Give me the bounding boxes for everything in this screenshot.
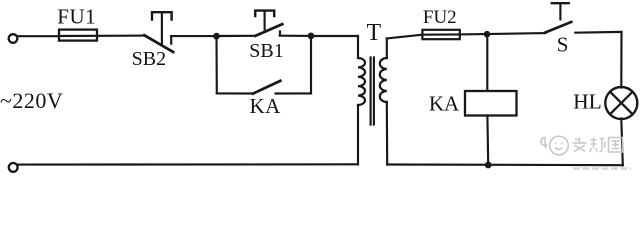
svg-text:SB2: SB2: [132, 48, 166, 70]
lamp HL circle: [605, 87, 637, 119]
wire: [460, 33, 546, 34]
wire KA coil bottom vertical: [486, 116, 489, 166]
svg-text:FU1: FU1: [57, 4, 96, 28]
wire bottom secondary: [387, 163, 623, 166]
transformer T primary winding: [358, 58, 365, 105]
wire lamp top vertical: [620, 32, 622, 88]
SB2 NC contact diagonal: [144, 35, 173, 52]
wire: [217, 92, 253, 94]
transformer T primary top lead: [357, 36, 359, 58]
watermark text 变频圈 (approximated strokes): [573, 138, 623, 153]
svg-text:KA: KA: [250, 94, 282, 118]
wire lamp bottom vertical: [621, 119, 623, 166]
watermark tiny caption: [573, 167, 631, 170]
watermark logo bubbles: [541, 136, 568, 155]
node A junction dot: [213, 33, 220, 40]
lamp HL cross line 2: [610, 92, 633, 115]
wire KA-branch right vertical: [310, 36, 312, 94]
node B junction dot: [308, 33, 315, 40]
SB2 stem: [161, 12, 163, 43]
fuse FU1: [59, 30, 97, 41]
wire KA coil top vertical: [486, 34, 488, 91]
node D junction dot: [485, 162, 492, 169]
svg-text:T: T: [366, 20, 381, 46]
SB2 fixed contact tick: [170, 36, 172, 43]
wire: [18, 35, 59, 37]
wire bottom primary: [18, 163, 358, 165]
wire: [311, 35, 358, 37]
wire KA-branch left vertical: [215, 36, 217, 93]
transformer T secondary top lead: [386, 38, 388, 58]
svg-text:~220V: ~220V: [0, 88, 63, 113]
relay coil KA: [465, 91, 517, 116]
SB1 stem: [264, 11, 266, 30]
wire secondary top to FU2: [387, 35, 423, 39]
wire: [217, 35, 256, 37]
wire through fuse FU2: [422, 33, 459, 35]
lamp HL cross line 1: [610, 92, 633, 115]
transformer T secondary winding: [380, 58, 387, 102]
wire: [280, 35, 311, 37]
relay contact KA diagonal: [253, 81, 280, 94]
wire: [171, 35, 216, 37]
svg-text:HL: HL: [573, 90, 602, 114]
wire: [575, 31, 621, 34]
pushbutton SB1 actuator: [255, 11, 274, 16]
SB1 fixed contact tick: [279, 31, 281, 35]
node C junction dot: [484, 31, 491, 38]
fuse FU2: [422, 30, 459, 39]
svg-text:SB1: SB1: [249, 40, 283, 62]
transformer T secondary bottom lead: [386, 102, 389, 165]
terminal top-left: [9, 34, 18, 43]
SB1 NO contact diagonal: [256, 24, 283, 36]
wire: [276, 92, 311, 94]
switch S stem: [559, 3, 561, 19]
transformer T core line 2: [373, 58, 375, 125]
pushbutton SB2 actuator: [152, 12, 172, 19]
switch S contact diagonal: [545, 22, 571, 33]
svg-text:S: S: [557, 32, 569, 56]
svg-text:KA: KA: [429, 91, 460, 115]
wire through fuse FU1: [59, 35, 144, 38]
transformer T core line 1: [370, 58, 372, 125]
transformer T primary bottom lead: [357, 105, 359, 164]
svg-text:FU2: FU2: [423, 7, 457, 28]
switch S actuator bar: [552, 2, 569, 4]
terminal bottom-left: [9, 163, 18, 172]
